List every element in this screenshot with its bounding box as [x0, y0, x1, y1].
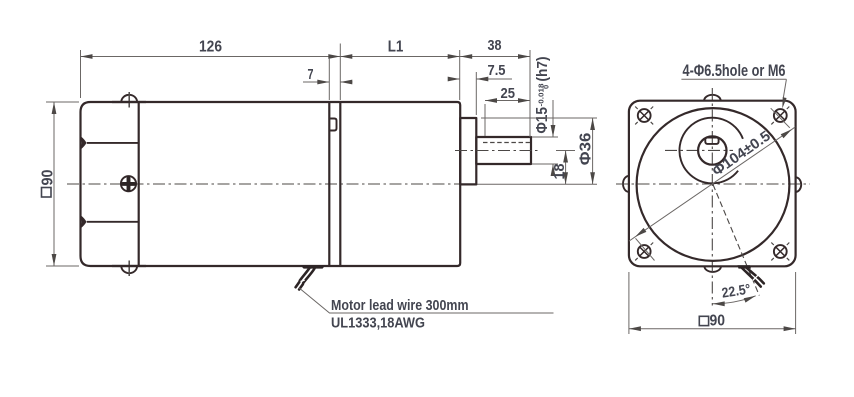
svg-text:90: 90 [40, 170, 57, 186]
svg-text:L1: L1 [388, 39, 404, 56]
svg-text:38: 38 [488, 38, 502, 54]
svg-text:UL1333,18AWG: UL1333,18AWG [331, 316, 425, 332]
svg-text:18: 18 [551, 164, 568, 180]
svg-text:4-Φ6.5hole or M6: 4-Φ6.5hole or M6 [683, 62, 786, 80]
svg-text:Φ15: Φ15 [534, 107, 551, 134]
svg-text:-0.018: -0.018 [537, 84, 546, 107]
svg-text:7: 7 [308, 67, 314, 83]
svg-text:25: 25 [501, 86, 516, 102]
svg-text:7.5: 7.5 [488, 63, 506, 79]
svg-text:Motor lead wire 300mm: Motor lead wire 300mm [331, 298, 469, 314]
svg-text:126: 126 [199, 39, 222, 56]
svg-text:Φ36: Φ36 [578, 132, 595, 165]
svg-text:(h7): (h7) [534, 57, 551, 82]
svg-text:90: 90 [710, 313, 726, 330]
